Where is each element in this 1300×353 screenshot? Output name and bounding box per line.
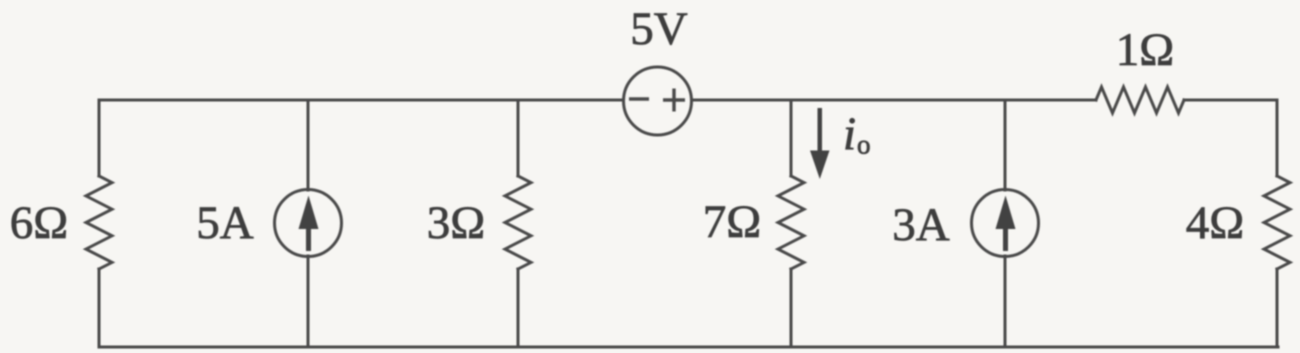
wire top far-right segment <box>1184 99 1277 102</box>
wire 5A branch top <box>307 100 310 190</box>
svg-text:7Ω: 7Ω <box>703 196 761 248</box>
voltage source V 5V circle <box>624 67 692 135</box>
svg-text:i: i <box>843 108 856 160</box>
wire top-right segment <box>692 99 1096 102</box>
current arrow i_o <box>818 108 823 156</box>
minus sign inside 5V source <box>629 97 649 100</box>
svg-text:5V: 5V <box>630 3 688 55</box>
wire 3ohm branch bottom <box>517 269 520 347</box>
svg-text:6Ω: 6Ω <box>10 197 68 249</box>
svg-text:o: o <box>857 130 871 160</box>
svg-text:4Ω: 4Ω <box>1186 197 1244 249</box>
resistor R 6ohm <box>86 176 112 269</box>
svg-text:3Ω: 3Ω <box>427 197 485 249</box>
wire 3A branch bottom <box>1004 256 1007 347</box>
svg-text:3A: 3A <box>892 199 950 251</box>
wire left branch top <box>98 100 101 176</box>
wire 7ohm branch bottom <box>790 269 793 347</box>
plus sign inside 5V source <box>663 98 685 101</box>
wire left branch bottom <box>98 269 101 347</box>
wire right branch bottom <box>1276 269 1279 347</box>
arrow inside 3A source <box>996 196 1016 230</box>
wire 5A branch bottom <box>307 256 310 347</box>
resistor R 3ohm <box>505 176 531 269</box>
current source I 3A circle <box>972 190 1039 257</box>
resistor R 4ohm <box>1264 176 1290 269</box>
wire right branch top <box>1276 100 1279 176</box>
wire 7ohm branch top <box>790 100 793 176</box>
wire 3A branch top <box>1004 100 1007 190</box>
arrow inside 5A source <box>299 196 319 230</box>
svg-text:1Ω: 1Ω <box>1116 24 1174 76</box>
resistor R 1ohm (horizontal zigzag on top wire) <box>1096 87 1184 113</box>
wire top-left segment <box>99 99 623 102</box>
resistor R 7ohm <box>778 176 804 269</box>
wire bottom <box>99 346 1278 349</box>
current source I 5A circle <box>275 190 342 257</box>
svg-text:5A: 5A <box>196 197 254 249</box>
wire 3ohm branch top <box>517 100 520 176</box>
